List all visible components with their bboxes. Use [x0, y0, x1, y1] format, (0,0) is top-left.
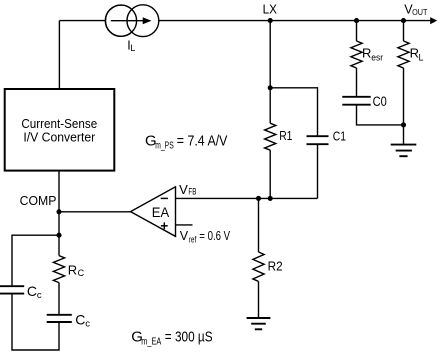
- svg-text:R: R: [68, 263, 77, 278]
- svg-text:R2: R2: [268, 260, 283, 274]
- svg-text:LX: LX: [263, 3, 278, 17]
- svg-text:Current-Sense: Current-Sense: [21, 116, 97, 131]
- svg-text:EA: EA: [152, 205, 169, 220]
- svg-text:esr: esr: [371, 52, 383, 62]
- svg-text:R1: R1: [279, 129, 292, 143]
- svg-text:C1: C1: [333, 129, 346, 143]
- svg-text:= 7.4 A/V: = 7.4 A/V: [177, 132, 228, 149]
- svg-text:L: L: [419, 52, 424, 62]
- svg-text:COMP: COMP: [20, 193, 57, 208]
- svg-text:m_PS: m_PS: [155, 139, 173, 151]
- svg-text:R: R: [362, 45, 371, 60]
- svg-text:c: c: [37, 290, 42, 301]
- svg-text:OUT: OUT: [412, 8, 427, 17]
- svg-text:C: C: [75, 312, 85, 328]
- svg-text:m_EA: m_EA: [141, 335, 161, 347]
- svg-text:= 300 µS: = 300 µS: [165, 329, 213, 346]
- svg-text:C0: C0: [373, 94, 387, 109]
- svg-text:I/V Converter: I/V Converter: [23, 130, 95, 145]
- svg-text:C: C: [78, 268, 85, 278]
- svg-text:c: c: [85, 319, 90, 330]
- svg-text:V: V: [179, 182, 188, 197]
- svg-text:= 0.6 V: = 0.6 V: [199, 229, 230, 243]
- svg-text:FB: FB: [188, 187, 196, 197]
- svg-text:L: L: [130, 43, 135, 53]
- svg-text:ref: ref: [189, 234, 197, 244]
- svg-text:C: C: [27, 283, 37, 299]
- svg-text:V: V: [180, 229, 189, 243]
